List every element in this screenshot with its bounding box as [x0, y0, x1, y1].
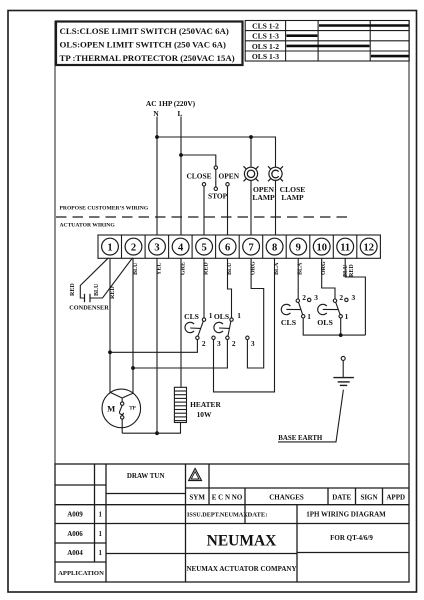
- border inner right: [408, 20, 410, 582]
- label OPEN LAMP: [252, 185, 305, 202]
- svg-text:CLS 1-3: CLS 1-3: [252, 32, 279, 41]
- node N junction: [155, 135, 159, 139]
- svg-text:PROPOSE CUSTOMER’S WIRING: PROPOSE CUSTOMER’S WIRING: [60, 206, 149, 212]
- wire terminal8 to CLS contact3: [214, 258, 275, 392]
- svg-text:AC 1HP (220V): AC 1HP (220V): [146, 99, 196, 108]
- svg-text:ORG: ORG: [251, 261, 257, 275]
- wire N vertical to terminal 3: [156, 117, 158, 236]
- svg-text:10W: 10W: [197, 410, 212, 419]
- svg-text:11: 11: [340, 242, 350, 253]
- table state bar OLS1-3: [371, 55, 409, 58]
- wire L vertical to terminal 4: [180, 117, 182, 236]
- svg-text:OLS 1-3: OLS 1-3: [252, 52, 279, 61]
- svg-text:CLS:CLOSE LIMIT SWITCH (250VAC: CLS:CLOSE LIMIT SWITCH (250VAC 6A): [60, 26, 229, 36]
- title block texts: [67, 472, 405, 557]
- svg-text:3: 3: [154, 242, 159, 253]
- svg-text:CLS: CLS: [281, 318, 296, 327]
- svg-text:7: 7: [248, 242, 253, 253]
- terminal strip box: [98, 235, 380, 258]
- wire terminal1 RED vertical to motor: [109, 258, 111, 392]
- svg-text:E C N NO: E C N NO: [212, 494, 243, 502]
- svg-text:RED: RED: [110, 286, 116, 299]
- svg-text:1: 1: [345, 312, 349, 321]
- svg-text:CONDENSER: CONDENSER: [69, 305, 109, 312]
- svg-text:BLA: BLA: [274, 262, 280, 275]
- svg-text:CLS: CLS: [184, 312, 199, 321]
- svg-text:1PH WIRING DIAGRAM: 1PH WIRING DIAGRAM: [306, 511, 386, 519]
- wire terminal5 to CLS contact1: [203, 258, 205, 318]
- svg-text:4: 4: [178, 242, 184, 253]
- svg-text:APPLICATION: APPLICATION: [58, 570, 104, 577]
- svg-text:DRAW TUN: DRAW TUN: [127, 472, 165, 480]
- wire open lamp to terminal 7: [250, 180, 252, 235]
- svg-text:OLS 1-2: OLS 1-2: [252, 42, 279, 51]
- svg-text:APPD: APPD: [386, 494, 405, 502]
- limit switch OLS right: [318, 298, 348, 318]
- svg-text:OLS:OPEN LIMIT SWITCH (250 VAC: OLS:OPEN LIMIT SWITCH (250 VAC 6A): [60, 40, 227, 50]
- wire to base earth: [278, 390, 343, 442]
- label AC 1HP (220V): [146, 99, 196, 118]
- svg-text:ORG: ORG: [321, 261, 327, 275]
- title block grid: [55, 464, 409, 582]
- svg-text:2: 2: [202, 339, 206, 348]
- svg-text:1: 1: [98, 530, 102, 538]
- bottom rail motor-heater: [122, 432, 181, 434]
- node open lamp junction: [249, 135, 253, 139]
- svg-text:2: 2: [302, 293, 306, 302]
- wire terminal1 diagonal to condenser: [80, 258, 108, 298]
- pushbutton CLOSE contact: [202, 183, 205, 186]
- svg-text:A009: A009: [67, 511, 83, 519]
- ground earth terminal: [278, 356, 354, 442]
- condenser plates: [84, 294, 86, 302]
- svg-text:CHANGES: CHANGES: [269, 494, 304, 502]
- wire terminal10 to right OLS contact2: [322, 258, 335, 299]
- svg-text:L: L: [178, 109, 183, 118]
- svg-text:12: 12: [363, 242, 374, 253]
- svg-text:YEL: YEL: [157, 263, 163, 275]
- terminal circles 1-12: [102, 238, 378, 255]
- svg-text:NEUMAX ACTUATOR COMPANY: NEUMAX ACTUATOR COMPANY: [186, 565, 296, 573]
- svg-text:HEATER: HEATER: [190, 400, 221, 409]
- switch state table: [245, 21, 409, 62]
- svg-text:BASE EARTH: BASE EARTH: [278, 435, 323, 442]
- legend box: [56, 22, 243, 66]
- wire terminal4 vertical to heater: [180, 258, 182, 387]
- wire terminal9 to right CLS contact2: [297, 258, 299, 299]
- svg-text:SYM: SYM: [189, 494, 205, 502]
- svg-text:FOR QT-4/6/9: FOR QT-4/6/9: [330, 534, 373, 542]
- svg-text:8: 8: [272, 242, 277, 253]
- node L branch junction: [179, 153, 183, 157]
- wire terminal2 BLU vertical to motor: [132, 258, 134, 393]
- svg-text:ISSU.DEPT.NEUMAX: ISSU.DEPT.NEUMAX: [187, 512, 248, 519]
- svg-text:BLU: BLU: [227, 262, 233, 275]
- legend text CLS: [60, 26, 235, 63]
- svg-text:ACTUATOR WIRING: ACTUATOR WIRING: [60, 223, 116, 229]
- svg-text:6: 6: [225, 242, 230, 253]
- svg-text:OLS: OLS: [317, 318, 333, 327]
- svg-text:STOP: STOP: [208, 192, 228, 201]
- svg-text:BLU: BLU: [133, 262, 139, 275]
- svg-text:DATE:: DATE:: [248, 512, 268, 519]
- svg-text:3: 3: [251, 339, 255, 348]
- svg-text:TP: TP: [129, 405, 136, 411]
- dashed separator wiring boundary: [56, 216, 352, 218]
- wire close lamp to terminal 8: [275, 180, 277, 235]
- stop button stem: [215, 169, 217, 187]
- pushbutton STOP contacts: [202, 166, 229, 191]
- svg-text:9: 9: [296, 242, 301, 253]
- wire N rail to lamps: [157, 136, 276, 138]
- svg-text:2: 2: [339, 293, 343, 302]
- svg-text:M: M: [107, 404, 115, 414]
- warning triangle symbol: [189, 469, 202, 481]
- svg-text:1: 1: [98, 549, 102, 557]
- wire terminal7 to OLS contact3: [247, 258, 263, 368]
- wire L branch to stop: [181, 155, 216, 166]
- svg-text:A006: A006: [67, 530, 83, 538]
- table state bar OLS1-2: [286, 45, 369, 48]
- svg-text:LAMP: LAMP: [281, 193, 304, 202]
- lamp OPEN (O): [244, 166, 259, 181]
- wire CLS contact2 to motor red line: [110, 340, 197, 353]
- heater R: [174, 387, 186, 422]
- svg-text:CLS 1-2: CLS 1-2: [252, 21, 279, 30]
- wire terminal6 to OLS contact1: [228, 258, 232, 318]
- wire color labels rotated: [70, 261, 355, 299]
- svg-text:RED: RED: [204, 262, 210, 275]
- svg-text:CLOSE: CLOSE: [186, 172, 211, 181]
- node T1 junction: [108, 350, 112, 354]
- wire terminal11 to right rail: [345, 258, 365, 335]
- node rail junction: [339, 333, 343, 337]
- svg-text:LAMP: LAMP: [252, 193, 275, 202]
- wire open button to terminal 6: [227, 186, 229, 235]
- wire right OLS contact1 to rail: [340, 318, 342, 335]
- svg-text:1: 1: [237, 311, 241, 320]
- limit switch CLS right: [281, 298, 311, 318]
- border inner left: [54, 21, 56, 582]
- wire condenser to terminal2 diagonal: [90, 258, 133, 298]
- svg-text:NEUMAX: NEUMAX: [207, 533, 278, 550]
- svg-text:2: 2: [131, 242, 136, 253]
- wire OLS contact2 to motor blu line: [133, 340, 227, 369]
- svg-text:SIGN: SIGN: [360, 494, 377, 502]
- svg-text:1: 1: [107, 242, 112, 253]
- svg-text:1: 1: [98, 511, 102, 519]
- wire open lamp drop: [250, 137, 252, 168]
- svg-text:BLA: BLA: [298, 262, 304, 275]
- wire close lamp drop: [275, 137, 277, 168]
- svg-text:10: 10: [316, 242, 327, 253]
- svg-text:RED: RED: [349, 264, 355, 277]
- svg-text:BLU: BLU: [94, 283, 100, 296]
- svg-text:1: 1: [307, 312, 311, 321]
- wire right CLS contact1 to rail: [303, 318, 365, 335]
- label CLOSE: [186, 172, 239, 201]
- svg-text:2: 2: [232, 339, 236, 348]
- node bottom rail T3 junction: [155, 431, 159, 435]
- limit switch CLS left: [185, 318, 215, 340]
- svg-text:3: 3: [314, 293, 318, 302]
- svg-text:GRE: GRE: [181, 262, 187, 275]
- svg-text:3: 3: [217, 339, 221, 348]
- limit switch OLS left: [214, 318, 249, 340]
- svg-text:DATE: DATE: [332, 494, 351, 502]
- wire close button to terminal 5: [203, 186, 205, 235]
- svg-text:OPEN: OPEN: [219, 172, 240, 181]
- svg-text:3: 3: [352, 293, 356, 302]
- svg-text:OLS: OLS: [214, 312, 229, 321]
- svg-text:TP :THERMAL PROTECTOR (250VAC: TP :THERMAL PROTECTOR (250VAC 15A): [60, 53, 235, 63]
- table state bar CLS1-3: [286, 34, 317, 37]
- svg-text:N: N: [153, 109, 159, 118]
- pushbutton OPEN contact: [226, 183, 229, 186]
- svg-text:RED: RED: [70, 283, 76, 296]
- motor M with thermal protector: [102, 389, 181, 433]
- wire terminal3 vertical to bottom rail: [156, 258, 158, 433]
- node T2 junction: [131, 366, 135, 370]
- svg-text:5: 5: [201, 242, 206, 253]
- svg-text:1: 1: [209, 311, 213, 320]
- table row labels: [252, 21, 279, 61]
- table state bar CLS1-2: [286, 26, 408, 57]
- svg-text:A004: A004: [67, 549, 83, 557]
- lamp CLOSE (C): [268, 166, 283, 181]
